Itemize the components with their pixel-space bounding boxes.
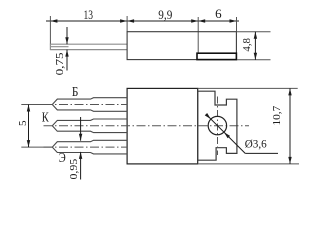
svg-text:0,95: 0,95 (68, 158, 80, 179)
tab bar bottom line (50, 49, 127, 51)
extension line left end of tab (49, 16, 51, 44)
mounting tab outline (front view) (198, 91, 237, 160)
package body (front view) (127, 88, 198, 163)
dimension line 10,7 (288, 88, 291, 163)
extension line bottom for 10,7 (198, 163, 299, 165)
svg-text:0,75: 0,75 (54, 52, 66, 76)
extension line bottom for 4,8 (237, 59, 271, 61)
svg-text:Б: Б (72, 84, 79, 99)
leader shelf (245, 152, 278, 154)
dimension 0,95 upper line with down arrow (79, 117, 82, 141)
svg-text:5: 5 (17, 120, 29, 126)
svg-text:Э: Э (59, 150, 66, 165)
extension line top for 10,7 (198, 87, 298, 89)
arrow 9,9 right (191, 19, 198, 22)
arrow 9,9 left (127, 19, 134, 22)
metal tab end (thick band) (197, 53, 236, 59)
extension line for 5 at pin1 (21, 104, 52, 106)
extension line body left (126, 16, 128, 32)
extension line step / 9,9-6 boundary (197, 17, 199, 53)
dimension line 4,8 (254, 32, 257, 60)
extension line body right (236, 17, 238, 32)
extension line for 5 at pin3 (21, 146, 52, 148)
dimension 0,95 lower line with up arrow (79, 152, 82, 180)
svg-text:10,7: 10,7 (271, 105, 283, 125)
tab bar (leads seen edge-on), top line (50, 43, 127, 45)
svg-text:13: 13 (83, 7, 93, 22)
package body (side view) (127, 32, 236, 60)
svg-text:9,9: 9,9 (158, 7, 172, 22)
tab bar left edge (49, 44, 51, 50)
pin 3 centerline (44, 146, 128, 148)
svg-text:6: 6 (215, 6, 222, 21)
tab bar middle line (51, 46, 69, 48)
arrow 6 left (198, 19, 205, 22)
dimension line 5 (27, 105, 30, 148)
hole leader line (diagonal) (206, 114, 245, 153)
leader arrow upper-left (tip on circle) (205, 113, 212, 120)
svg-text:4,8: 4,8 (241, 38, 253, 52)
pin 1 centerline (44, 104, 128, 106)
dimension 0,75 lower line with up arrow (65, 50, 68, 71)
mounting hole (208, 116, 226, 134)
svg-text:Ø3,6: Ø3,6 (245, 137, 267, 151)
arrow 6 right (230, 19, 237, 22)
arrow 13 left (50, 19, 57, 22)
pin 3 (emitter) outline (52, 140, 127, 154)
hole vertical centerline (217, 97, 219, 156)
main horizontal centerline through pin2 / body / hole (44, 125, 250, 127)
pin 2 (collector) outline (52, 119, 127, 133)
extension line top for 4,8 (236, 31, 270, 33)
leader arrow lower-right (tip on circle) (223, 131, 230, 138)
dimension 0,75 upper line with down arrow (65, 27, 68, 44)
svg-text:К: К (42, 110, 50, 125)
pin 1 (base) outline (52, 98, 127, 112)
dimension line 13 / 9,9 / 6 (46, 20, 239, 22)
arrow 13 right (120, 19, 127, 22)
